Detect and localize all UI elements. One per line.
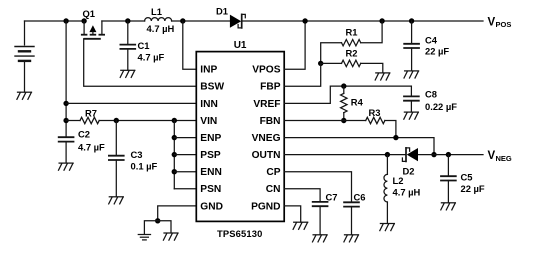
svg-text:ENP: ENP	[200, 133, 221, 144]
svg-text:R3: R3	[369, 107, 381, 118]
wire GND right branch	[158, 221, 171, 233]
node C3 junction	[114, 118, 119, 123]
wire OUTN	[284, 154, 406, 156]
wire top rail L1 to D1 anode	[172, 20, 230, 22]
wire PGND	[284, 206, 301, 222]
wire FBN	[284, 120, 366, 122]
wire CN	[284, 189, 320, 202]
wire FBP	[284, 63, 321, 86]
svg-text:4.7 µF: 4.7 µF	[78, 142, 105, 153]
battery V1	[15, 21, 34, 92]
svg-text:PGND: PGND	[251, 201, 280, 212]
svg-text:4.7 µH: 4.7 µH	[147, 23, 175, 34]
node input rail junction	[63, 18, 68, 23]
svg-text:0.22 µF: 0.22 µF	[425, 101, 457, 112]
svg-text:C2: C2	[78, 128, 90, 139]
svg-text:4.7 µF: 4.7 µF	[138, 52, 165, 63]
inductor L2	[384, 155, 387, 224]
wire top rail D1 cathode to VPOS terminal	[242, 20, 483, 22]
op-amp U1 TPS65130 box	[196, 52, 284, 222]
ground earth GND	[138, 235, 150, 240]
capacitor C4	[403, 21, 420, 71]
svg-text:C4: C4	[425, 35, 438, 46]
resistor R1	[321, 21, 382, 63]
capacitor C2	[58, 137, 75, 163]
ground C8	[404, 112, 419, 119]
svg-text:INN: INN	[200, 99, 218, 110]
wire GND left branch	[144, 221, 157, 235]
svg-text:BSW: BSW	[200, 82, 224, 93]
node C4 junction	[409, 18, 414, 23]
svg-text:CN: CN	[266, 184, 281, 195]
resistor R2	[321, 60, 383, 73]
svg-text:D1: D1	[216, 6, 228, 17]
node L1/D1/INP junction	[180, 18, 185, 23]
wire enable chain vertical	[173, 121, 175, 189]
svg-text:L2: L2	[393, 175, 404, 186]
diode D2	[402, 148, 418, 162]
wire VPOS	[284, 21, 305, 69]
capacitor C7	[312, 202, 329, 235]
svg-text:R2: R2	[346, 47, 358, 58]
ground R2	[375, 73, 390, 80]
svg-text:FBP: FBP	[260, 82, 281, 93]
node VPOS rail junction	[302, 18, 307, 23]
node FBP divider junction	[318, 61, 323, 66]
capacitor C3	[108, 121, 125, 197]
svg-text:OUTN: OUTN	[252, 150, 281, 161]
svg-text:TPS65130: TPS65130	[217, 228, 263, 239]
capacitor C8	[403, 86, 420, 112]
svg-text:Q1: Q1	[83, 8, 96, 19]
svg-text:C3: C3	[131, 149, 143, 160]
svg-text:VIN: VIN	[200, 116, 217, 127]
node PSP junction	[172, 152, 177, 157]
node D2 anode junction	[431, 152, 436, 157]
svg-text:C8: C8	[425, 88, 437, 99]
wire top rail left segment battery to Q1 source	[25, 20, 85, 22]
ground chassis GND	[163, 233, 178, 240]
wire VNEG	[284, 138, 434, 155]
svg-text:22 µF: 22 µF	[425, 46, 449, 57]
svg-text:C1: C1	[138, 40, 150, 51]
ground C3	[109, 197, 124, 204]
transistor Q1	[81, 18, 105, 39]
svg-text:0.1 µF: 0.1 µF	[131, 160, 158, 171]
wire INN	[66, 102, 196, 104]
node R3 VNEG junction	[393, 135, 398, 140]
ground C6	[344, 235, 359, 242]
wire input vertical to INN/VIN/C2	[65, 21, 67, 137]
svg-text:4.7 µH: 4.7 µH	[393, 187, 421, 198]
node L2 junction	[385, 152, 390, 157]
svg-text:D2: D2	[403, 165, 415, 176]
svg-text:VNEG: VNEG	[252, 133, 281, 144]
svg-text:R4: R4	[351, 97, 364, 108]
wire PSP	[174, 154, 196, 156]
svg-text:GND: GND	[200, 201, 223, 212]
diode D1	[230, 14, 245, 28]
svg-text:R7: R7	[85, 108, 97, 119]
svg-text:ENN: ENN	[200, 167, 222, 178]
resistor R4	[341, 86, 347, 120]
node FBN junction	[341, 118, 346, 123]
ground C7	[313, 235, 328, 242]
svg-text:VREF: VREF	[253, 99, 280, 110]
svg-text:U1: U1	[234, 40, 247, 51]
svg-text:POS: POS	[496, 20, 512, 29]
node enable chain VIN junction	[172, 118, 177, 123]
node C1 junction	[125, 18, 130, 23]
svg-text:C5: C5	[461, 171, 473, 182]
node C5 junction	[446, 152, 451, 157]
wire D2 anode to VNEG terminal	[418, 154, 483, 156]
wire CP	[284, 172, 351, 203]
wire INP	[183, 21, 197, 69]
svg-text:PSN: PSN	[200, 184, 221, 195]
node ENN junction	[172, 169, 177, 174]
wire top rail Q1 drain to L1	[102, 20, 145, 22]
node R4 top junction	[341, 83, 346, 88]
svg-text:R1: R1	[346, 27, 358, 38]
ground C4	[404, 71, 419, 78]
node GND junction	[155, 218, 160, 223]
node VIN junction left	[63, 118, 68, 123]
svg-text:CP: CP	[266, 167, 280, 178]
resistor R7	[66, 117, 196, 123]
svg-text:22 µF: 22 µF	[461, 183, 485, 194]
resistor R3	[366, 117, 396, 137]
node INN junction	[63, 101, 68, 106]
capacitor C5	[440, 155, 457, 203]
wire VREF	[284, 86, 411, 103]
ground L2	[380, 224, 395, 231]
wire Q1 gate to BSW	[84, 39, 197, 87]
svg-text:INP: INP	[200, 65, 217, 76]
ground battery (chassis)	[17, 92, 32, 99]
ground C2	[59, 163, 74, 170]
svg-text:PSP: PSP	[200, 150, 221, 161]
svg-text:C6: C6	[354, 192, 366, 203]
svg-text:V: V	[488, 16, 496, 28]
capacitor C6	[343, 202, 360, 234]
capacitor C1	[120, 21, 137, 70]
ground PGND	[293, 222, 308, 229]
wire GND	[158, 206, 197, 221]
node R1 rail junction	[379, 18, 384, 23]
ground C1	[120, 70, 135, 77]
node ENP junction	[172, 135, 177, 140]
inductor L1	[145, 18, 172, 21]
ground C5	[441, 203, 456, 210]
svg-text:VPOS: VPOS	[252, 65, 281, 76]
svg-text:NEG: NEG	[496, 154, 512, 163]
wire ENN	[174, 171, 196, 173]
svg-text:C7: C7	[326, 192, 338, 203]
wire ENP	[174, 137, 196, 139]
svg-text:FBN: FBN	[260, 116, 281, 127]
svg-text:L1: L1	[151, 6, 162, 17]
wire PSN	[174, 188, 196, 190]
svg-text:V: V	[488, 150, 496, 162]
